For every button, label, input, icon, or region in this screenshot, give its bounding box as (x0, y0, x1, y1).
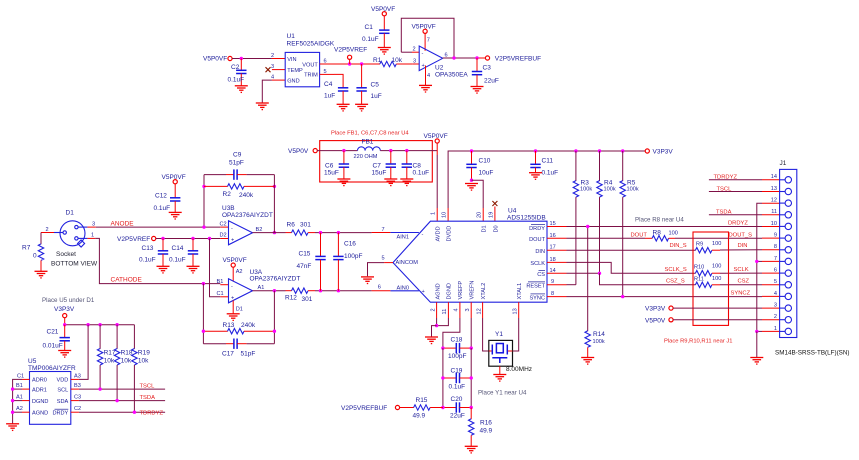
svg-text:Place U5 under D1: Place U5 under D1 (42, 297, 95, 304)
svg-text:C18: C18 (451, 336, 463, 343)
svg-text:VDD: VDD (56, 378, 68, 384)
svg-text:R16: R16 (480, 420, 492, 427)
wire VREFP pin4 (443, 302, 460, 348)
annotation box R9 R10 R11 (693, 232, 729, 325)
ground C10 (465, 184, 478, 191)
node feedback junctions (202, 225, 205, 228)
svg-text:SCLK: SCLK (530, 261, 545, 267)
wire VREFP rail mid (442, 348, 444, 407)
pin 3 TEMP stub (271, 64, 285, 70)
label U3A (250, 269, 301, 283)
resistor R4 100k (597, 151, 616, 273)
svg-text:A2: A2 (16, 406, 23, 412)
svg-text:Socket: Socket (56, 251, 76, 258)
wire AIN1 row (315, 227, 390, 233)
svg-text:100k: 100k (593, 339, 605, 345)
svg-text:U1: U1 (287, 33, 296, 40)
svg-text:AINCOM: AINCOM (396, 260, 419, 266)
wire VREFN rail mid (470, 348, 472, 407)
wire U5 left pins common (13, 379, 22, 423)
svg-text:SM14B-SRSS-TB(LF)(SN): SM14B-SRSS-TB(LF)(SN) (775, 350, 850, 357)
node SCL R17 junction (98, 387, 101, 390)
node C18 junctions (441, 346, 444, 349)
svg-text:13: 13 (771, 186, 777, 192)
no-connect X pin 19 (492, 201, 497, 206)
svg-text:14: 14 (550, 268, 556, 274)
capacitor C21 0.01uF (43, 325, 70, 351)
svg-text:REF5025AIDGK: REF5025AIDGK (287, 41, 335, 48)
node AIN0 junctions (319, 289, 322, 292)
svg-text:0.1uF: 0.1uF (139, 256, 156, 263)
svg-text:VREFN: VREFN (470, 281, 476, 300)
wire U2 feedback loop (401, 18, 454, 58)
svg-text:SDA: SDA (57, 399, 69, 405)
svg-text:+: + (231, 296, 234, 302)
node junctions C13 C14 branch (161, 237, 164, 240)
annotation box FB1 (320, 141, 433, 182)
svg-text:AIN0: AIN0 (397, 285, 409, 291)
svg-text:R7: R7 (22, 244, 31, 251)
pin 3 stub ANODE (87, 220, 134, 227)
ground C6 (337, 179, 350, 186)
node DRDY R14 junction (586, 225, 589, 228)
svg-text:C16: C16 (344, 240, 356, 247)
svg-text:C2: C2 (74, 406, 81, 412)
wire DVDD vertical and V3P3V rail (442, 151, 646, 221)
svg-text:18: 18 (550, 257, 556, 263)
svg-text:C20: C20 (451, 396, 463, 403)
svg-text:ANODE: ANODE (111, 220, 135, 227)
svg-text:7: 7 (427, 38, 430, 44)
svg-text:AGND: AGND (436, 283, 442, 299)
svg-text:22uF: 22uF (484, 77, 499, 84)
ground C1 (378, 48, 391, 55)
ground C5 (355, 104, 368, 111)
node CATHODE feedback junction (202, 282, 205, 285)
svg-text:16: 16 (550, 233, 556, 239)
wire V2P5VREF row (156, 238, 221, 240)
svg-text:R3: R3 (581, 179, 590, 186)
wire DRDY row TDRDYZ (71, 406, 165, 416)
svg-text:ADR0: ADR0 (32, 378, 47, 384)
power port V5P0VF (U1 VIN) (203, 56, 232, 63)
svg-text:0.1uF: 0.1uF (362, 36, 379, 43)
capacitor C4 1uF (324, 81, 348, 105)
svg-text:BOTTOM VIEW: BOTTOM VIEW (51, 261, 98, 268)
svg-text:DGND: DGND (447, 283, 453, 299)
svg-text:D2: D2 (220, 232, 227, 238)
capacitor C13 0.1uF (139, 239, 168, 267)
svg-text:0.1uF: 0.1uF (169, 256, 186, 263)
wire DIN pin17 row (547, 245, 696, 251)
power port V2P5VREF (left) (117, 236, 156, 243)
wire SCLK pin18 row (547, 257, 696, 273)
svg-text:15uF: 15uF (324, 170, 339, 177)
capacitor C18 100pF (443, 336, 471, 360)
capacitor C9 51pF (204, 152, 274, 180)
svg-text:OPA2376AIYZDT: OPA2376AIYZDT (250, 275, 301, 282)
op-amp U3A (229, 279, 253, 303)
node CS R4 junction (598, 272, 601, 275)
pin A1 stub (16, 395, 30, 401)
wire Y1 case ground (499, 366, 501, 374)
resistor R2 240k (204, 184, 274, 199)
svg-text:2: 2 (774, 314, 777, 320)
svg-text:B1: B1 (217, 279, 224, 285)
svg-text:SYNC: SYNC (529, 296, 545, 302)
svg-text:14: 14 (771, 174, 777, 180)
svg-text:10k: 10k (104, 358, 115, 365)
pin J1-11 (771, 209, 791, 218)
node SDA R18 junction (115, 399, 118, 402)
wire CATHODE net (95, 238, 220, 283)
capacitor C10 10uF (466, 151, 493, 180)
wire AIN0 row (315, 285, 390, 291)
pin J1-12 (771, 198, 792, 207)
capacitor C2 0.1uF (228, 59, 247, 86)
resistor R8 100 (645, 230, 678, 241)
svg-text:301: 301 (300, 222, 311, 229)
node AGND DGND junction (435, 324, 438, 327)
ground U3A (227, 314, 240, 321)
svg-text:22uF: 22uF (450, 412, 465, 419)
pin C2 stub (220, 222, 229, 228)
wire XTAL2 pin12 (476, 302, 489, 351)
svg-text:0.1uF: 0.1uF (413, 170, 430, 177)
svg-text:V2P5VREFBUF: V2P5VREFBUF (341, 405, 387, 412)
svg-text:XTAL1: XTAL1 (517, 283, 523, 300)
svg-text:D1: D1 (482, 225, 488, 232)
svg-text:V5P0V: V5P0V (288, 148, 309, 155)
capacitor C14 0.1uF (169, 239, 198, 267)
svg-text:AIN1: AIN1 (397, 234, 409, 240)
wire DRDY pin15 row (547, 221, 780, 227)
ground C13 (157, 266, 170, 273)
svg-text:C9: C9 (233, 152, 242, 159)
wire CS pin14 row (547, 268, 600, 274)
node AIN1 junctions (319, 231, 322, 234)
op-amp U1 body REF5025AIDGK (285, 33, 335, 87)
capacitor C19 0.1uF (443, 367, 471, 390)
pin D2 stub (220, 232, 229, 238)
power port V5P0VF (U2 pin7) (412, 24, 436, 51)
svg-text:5: 5 (382, 256, 385, 262)
node C20 junctions (441, 406, 444, 409)
svg-text:VOUT: VOUT (302, 62, 318, 68)
svg-text:8: 8 (774, 244, 777, 250)
ferrite bead FB1 220 OHM (354, 139, 381, 160)
svg-text:ADR1: ADR1 (32, 387, 47, 393)
svg-text:B3: B3 (74, 383, 81, 389)
svg-text:Place R9,R10,R11 near J1: Place R9,R10,R11 near J1 (664, 339, 733, 345)
node SYNC R5 junction (621, 295, 624, 298)
capacitor C5 1uF (356, 64, 381, 104)
svg-text:-: - (422, 232, 424, 238)
svg-text:C3: C3 (74, 395, 81, 401)
power port V5P0VF (C1) (371, 6, 395, 16)
wire B1 link (13, 388, 22, 390)
svg-text:100k: 100k (604, 187, 616, 193)
svg-text:R2: R2 (223, 191, 232, 198)
ground U2 (419, 85, 432, 92)
svg-text:A1: A1 (258, 285, 265, 291)
svg-text:DOUT: DOUT (631, 233, 648, 239)
wire V5P0V to FB1 (317, 150, 357, 152)
pin D1 stub and ground (233, 300, 243, 313)
resistor R7 0 (22, 233, 44, 272)
ground J1 (750, 358, 763, 365)
svg-text:+: + (231, 237, 234, 243)
ground Y1 (493, 375, 506, 382)
pin 4 stub and ground (426, 66, 431, 86)
svg-text:TDRDYZ: TDRDYZ (714, 175, 738, 181)
svg-text:1: 1 (431, 212, 437, 215)
svg-text:C1: C1 (365, 24, 374, 31)
svg-text:R19: R19 (138, 349, 150, 356)
svg-text:V2P5VREFBUF: V2P5VREFBUF (495, 55, 541, 62)
power port V3P3V (U5) (54, 306, 75, 318)
svg-text:1uF: 1uF (371, 93, 382, 100)
svg-text:V5P0V: V5P0V (645, 317, 666, 324)
pin 2 VIN stub (271, 53, 285, 59)
wire J1 pin13 TSCL (709, 186, 780, 192)
svg-text:Place FB1, C6,C7,C8 near U4: Place FB1, C6,C7,C8 near U4 (331, 131, 409, 137)
svg-text:AGND: AGND (32, 411, 48, 417)
op-amp U3B (229, 221, 253, 245)
power port V3P3V (rail) (645, 148, 673, 155)
node R13 junctions (202, 330, 205, 333)
capacitor C12 0.1uF (154, 184, 181, 213)
node C7 C8 junctions (389, 149, 392, 152)
power port V2P5VREFBUF (left) (341, 405, 400, 412)
wire B2 output (253, 227, 286, 233)
ground AGND (425, 337, 438, 344)
ground R7 (35, 271, 48, 278)
svg-text:R13: R13 (223, 322, 235, 329)
svg-text:CSZ_S: CSZ_S (666, 279, 685, 285)
svg-text:9: 9 (774, 233, 777, 239)
resistor R5 100k (620, 151, 639, 297)
wire V5P0VF to U1 pin2 (232, 58, 272, 60)
svg-text:TSDA: TSDA (140, 395, 156, 401)
svg-text:12: 12 (771, 198, 777, 204)
svg-text:DRDY: DRDY (52, 411, 68, 417)
pin A2 stub (16, 406, 30, 412)
wire VOUT row (334, 63, 380, 65)
svg-text:0.1uF: 0.1uF (154, 205, 171, 212)
node pin1 gnd junction (755, 330, 758, 333)
svg-text:Place R8 near U4: Place R8 near U4 (635, 216, 684, 223)
node rail junctions (63, 323, 66, 326)
svg-text:Y1: Y1 (495, 331, 503, 338)
power port V5P0VF (U3A A2) (223, 257, 247, 282)
svg-text:D1: D1 (66, 210, 75, 217)
svg-text:U2: U2 (435, 65, 444, 72)
wire A1 output (253, 285, 286, 291)
svg-text:C10: C10 (479, 157, 491, 164)
ground C11 (529, 173, 542, 180)
svg-text:XTAL2: XTAL2 (481, 283, 487, 300)
svg-text:FB1: FB1 (362, 139, 374, 146)
svg-text:51pF: 51pF (241, 351, 256, 358)
resistor R15 49.9 (400, 397, 443, 419)
node output junctions (452, 56, 455, 59)
resistor R18 10k (114, 325, 133, 401)
svg-text:C4: C4 (324, 81, 333, 88)
diode socket D1 (51, 210, 98, 268)
wire R10 to J1 pin6 (720, 272, 780, 274)
svg-text:51pF: 51pF (229, 160, 244, 167)
resistor R11 100 (694, 276, 721, 288)
pin J1-13 (771, 186, 792, 195)
svg-text:SCL: SCL (57, 387, 68, 393)
svg-text:1: 1 (91, 232, 94, 238)
ground C21 (58, 351, 71, 358)
wire branch to U3A + input (210, 239, 221, 297)
svg-text:C14: C14 (172, 245, 184, 252)
svg-text:4: 4 (774, 291, 777, 297)
svg-text:TMP006AIYZFR: TMP006AIYZFR (28, 365, 76, 372)
svg-text:17: 17 (550, 245, 556, 251)
node pin7 gnd junction (755, 260, 758, 263)
op-amp U5 TMP006AIYZFR body (28, 358, 76, 424)
svg-text:DOUT_S: DOUT_S (729, 233, 753, 239)
resistor R19 10k (132, 325, 151, 413)
wire feedback right vertical (273, 175, 275, 233)
svg-text:A2: A2 (236, 269, 243, 275)
wire SYNC pin8 row (547, 291, 780, 297)
svg-text:-: - (231, 283, 233, 289)
wire SDA row TSDA (71, 395, 165, 401)
svg-text:TDRDYZ: TDRDYZ (140, 411, 164, 417)
wire J1 pin14 TDRDYZ (709, 175, 780, 181)
node left pin junctions (11, 387, 14, 390)
svg-text:V5P0VF: V5P0VF (203, 56, 227, 63)
wire CS step down CSZ_S (600, 273, 696, 285)
svg-text:R6: R6 (287, 222, 296, 229)
power port V5P0VF (C12) (162, 174, 186, 184)
svg-text:8.00MHz: 8.00MHz (506, 366, 532, 373)
capacitor C6 15uF (324, 151, 349, 179)
svg-text:C19: C19 (451, 367, 463, 374)
resistor R1 10k (373, 57, 413, 66)
svg-text:DIN: DIN (738, 243, 748, 249)
power port V5P0V (288, 148, 317, 155)
wire U2 output (443, 53, 486, 59)
svg-text:240k: 240k (239, 192, 254, 199)
svg-text:11: 11 (771, 209, 777, 215)
svg-text:19: 19 (488, 212, 494, 218)
svg-text:1: 1 (774, 326, 777, 332)
svg-text:C15: C15 (299, 251, 311, 258)
svg-text:100pF: 100pF (448, 353, 466, 360)
wire A1 link (13, 400, 22, 402)
node C6 junction (342, 149, 345, 152)
wire J1 pin7 stub (757, 260, 780, 262)
svg-text:DIN: DIN (535, 249, 545, 255)
svg-text:13: 13 (512, 308, 518, 314)
wire U3B feedback loop left (203, 175, 205, 228)
svg-text:R9: R9 (696, 242, 703, 248)
resistor R16 49.9 (469, 408, 493, 447)
svg-text:A3: A3 (74, 373, 81, 379)
wire DOUT pin16 row (547, 233, 645, 239)
op-amp U4 ADS1255IDB body (390, 208, 547, 303)
svg-text:7: 7 (382, 227, 385, 233)
wire pin2 stub (401, 47, 419, 53)
svg-text:5: 5 (774, 279, 777, 285)
ground R14 (581, 358, 594, 365)
svg-text:6: 6 (378, 285, 381, 291)
ground U5 (6, 424, 19, 431)
pin J1-4 (774, 291, 792, 300)
svg-text:C1: C1 (17, 373, 24, 379)
svg-text:6: 6 (445, 53, 448, 59)
svg-text:-: - (231, 225, 233, 231)
power port V5P0V (J1 pin2) (645, 317, 780, 324)
svg-text:220 OHM: 220 OHM (354, 154, 378, 160)
svg-text:TEMP: TEMP (287, 68, 303, 74)
wire D0 pin19 stub (488, 207, 495, 222)
svg-text:CS: CS (537, 272, 545, 278)
pin J1-6 (774, 268, 792, 277)
svg-text:SYNCZ: SYNCZ (731, 290, 751, 296)
svg-text:GND: GND (287, 78, 299, 84)
capacitor C7 15uF (372, 151, 396, 179)
pin J1-10 (771, 221, 792, 230)
pin J1-5 (774, 279, 792, 288)
svg-text:C13: C13 (142, 245, 154, 252)
svg-text:0.01uF: 0.01uF (43, 342, 63, 349)
wire A2 link (13, 411, 22, 413)
node rail junctions (470, 149, 473, 152)
svg-text:V3P3V: V3P3V (645, 306, 666, 313)
pin C1 stub (17, 373, 30, 379)
svg-text:TRIM: TRIM (304, 73, 318, 79)
pin 2 stub (41, 227, 54, 233)
svg-text:DOUT: DOUT (529, 237, 545, 243)
ground C3 (471, 87, 484, 94)
svg-text:AVDD: AVDD (436, 226, 442, 241)
svg-text:SCLK: SCLK (734, 267, 749, 273)
pin 5 TRIM stub (320, 69, 334, 75)
svg-text:100: 100 (712, 276, 721, 282)
node DRDY R19 junction (133, 411, 136, 414)
svg-text:VIN: VIN (287, 57, 296, 63)
wire D1 pin20 to C10 ground (472, 180, 484, 221)
wire J1 pin1 stub (757, 330, 780, 332)
ground U1 (256, 103, 269, 110)
wire J1 pin11 TSDA (709, 210, 780, 216)
wire TRIM to C4 (334, 74, 343, 87)
svg-text:C12: C12 (155, 193, 167, 200)
label U3B (222, 205, 273, 219)
op-amp U2 OPA350EA (419, 46, 468, 79)
svg-text:100k: 100k (627, 187, 639, 193)
ground C4 (337, 104, 350, 111)
wire V3P3V rail U5 (65, 318, 135, 325)
svg-text:OPA2376AIYZDT: OPA2376AIYZDT (222, 212, 273, 219)
svg-text:DRDYZ: DRDYZ (728, 221, 748, 227)
svg-text:+: + (422, 63, 425, 69)
wire R11 to J1 pin5 (720, 284, 780, 286)
resistor R3 100k (573, 151, 592, 285)
resistor R9 100 (695, 241, 721, 253)
power port V5P0VF (AVDD) (424, 133, 448, 143)
power port V2P5VREF (334, 46, 367, 64)
svg-text:R4: R4 (604, 179, 613, 186)
svg-text:R14: R14 (593, 331, 605, 338)
